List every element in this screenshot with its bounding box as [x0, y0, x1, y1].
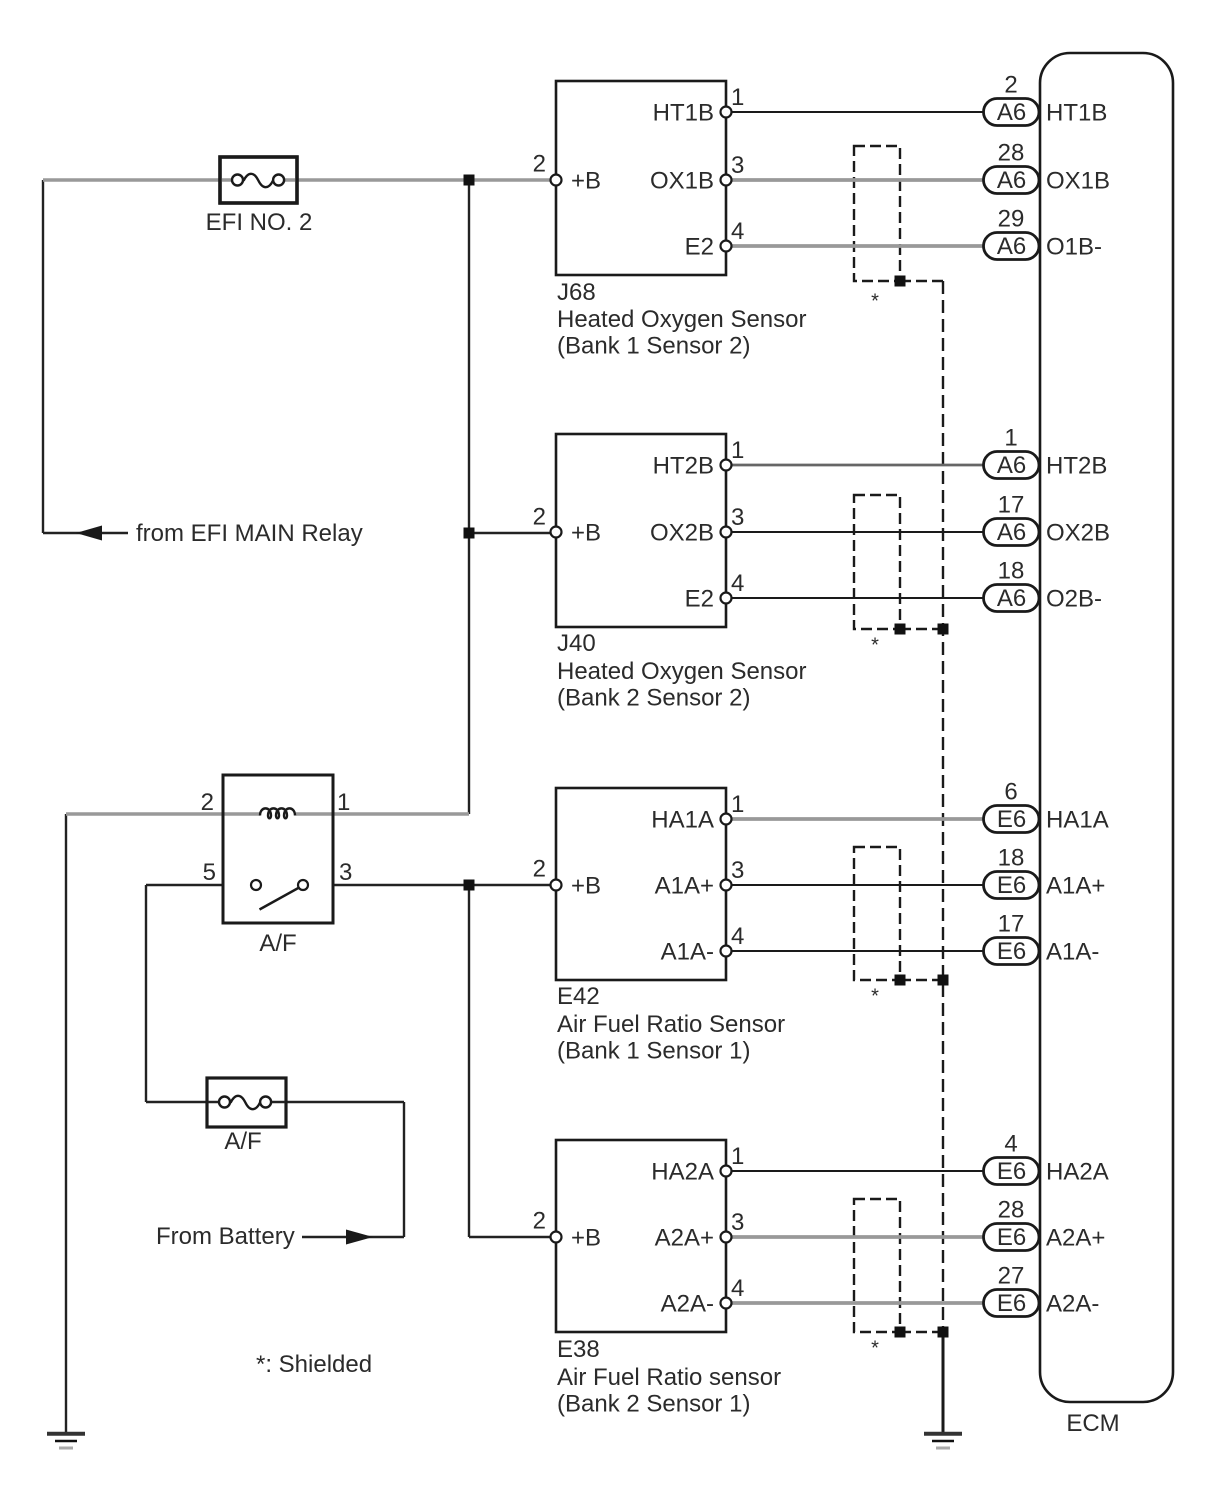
svg-text:1: 1 — [731, 791, 744, 818]
svg-text:E6: E6 — [997, 872, 1026, 899]
svg-text:2: 2 — [533, 856, 546, 883]
svg-text:HT1B: HT1B — [1046, 100, 1107, 127]
svg-text:E2: E2 — [685, 586, 714, 613]
svg-text:E6: E6 — [997, 938, 1026, 965]
svg-text:*: * — [871, 986, 879, 1008]
svg-text:(Bank 1 Sensor 1): (Bank 1 Sensor 1) — [557, 1038, 750, 1065]
svg-text:Air Fuel Ratio Sensor: Air Fuel Ratio Sensor — [557, 1011, 785, 1038]
svg-text:3: 3 — [731, 152, 744, 179]
svg-text:E6: E6 — [997, 1224, 1026, 1251]
svg-text:(Bank 2 Sensor 1): (Bank 2 Sensor 1) — [557, 1391, 750, 1418]
svg-text:E6: E6 — [997, 806, 1026, 833]
svg-text:2: 2 — [533, 1208, 546, 1235]
svg-text:A6: A6 — [997, 452, 1026, 479]
svg-text:A2A-: A2A- — [1046, 1291, 1099, 1318]
svg-text:1: 1 — [731, 1143, 744, 1170]
svg-text:HT1B: HT1B — [653, 100, 714, 127]
svg-text:O2B-: O2B- — [1046, 586, 1102, 613]
svg-text:A1A+: A1A+ — [655, 873, 714, 900]
svg-text:27: 27 — [998, 1263, 1025, 1290]
svg-text:E2: E2 — [685, 234, 714, 261]
svg-text:*: * — [871, 635, 879, 657]
svg-text:A1A-: A1A- — [661, 939, 714, 966]
svg-text:E6: E6 — [997, 1158, 1026, 1185]
svg-text:J68: J68 — [557, 279, 596, 306]
svg-text:A6: A6 — [997, 99, 1026, 126]
svg-text:4: 4 — [731, 1275, 744, 1302]
svg-text:+B: +B — [571, 1225, 601, 1252]
svg-text:A6: A6 — [997, 585, 1026, 612]
svg-text:(Bank 1 Sensor 2): (Bank 1 Sensor 2) — [557, 333, 750, 360]
svg-text:A6: A6 — [997, 233, 1026, 260]
svg-text:*: Shielded: *: Shielded — [256, 1351, 372, 1378]
svg-text:ECM: ECM — [1066, 1410, 1119, 1437]
svg-text:1: 1 — [1004, 425, 1017, 452]
svg-text:*: * — [871, 1338, 879, 1360]
svg-text:3: 3 — [731, 1209, 744, 1236]
svg-text:*: * — [871, 291, 879, 313]
svg-text:A/F: A/F — [259, 930, 296, 957]
svg-text:A6: A6 — [997, 519, 1026, 546]
svg-text:OX1B: OX1B — [1046, 168, 1110, 195]
svg-text:1: 1 — [731, 437, 744, 464]
svg-text:1: 1 — [731, 84, 744, 111]
svg-text:HA1A: HA1A — [651, 807, 714, 834]
svg-text:A1A+: A1A+ — [1046, 873, 1105, 900]
svg-text:O1B-: O1B- — [1046, 234, 1102, 261]
svg-text:3: 3 — [731, 504, 744, 531]
svg-text:4: 4 — [1004, 1131, 1017, 1158]
svg-text:28: 28 — [998, 1197, 1025, 1224]
svg-text:2: 2 — [533, 504, 546, 531]
svg-text:17: 17 — [998, 492, 1025, 519]
svg-text:17: 17 — [998, 911, 1025, 938]
svg-text:3: 3 — [731, 857, 744, 884]
svg-text:4: 4 — [731, 923, 744, 950]
svg-text:+B: +B — [571, 873, 601, 900]
svg-text:+B: +B — [571, 168, 601, 195]
svg-text:HT2B: HT2B — [1046, 453, 1107, 480]
svg-text:2: 2 — [1004, 72, 1017, 99]
svg-text:(Bank 2 Sensor 2): (Bank 2 Sensor 2) — [557, 685, 750, 712]
svg-text:E42: E42 — [557, 983, 600, 1010]
svg-text:OX1B: OX1B — [650, 168, 714, 195]
svg-text:A6: A6 — [997, 167, 1026, 194]
svg-text:Air Fuel Ratio sensor: Air Fuel Ratio sensor — [557, 1364, 781, 1391]
svg-text:+B: +B — [571, 520, 601, 547]
svg-text:OX2B: OX2B — [1046, 520, 1110, 547]
svg-text:HT2B: HT2B — [653, 453, 714, 480]
svg-text:29: 29 — [998, 206, 1025, 233]
svg-text:HA1A: HA1A — [1046, 807, 1109, 834]
svg-text:HA2A: HA2A — [651, 1159, 714, 1186]
svg-text:from EFI MAIN Relay: from EFI MAIN Relay — [136, 520, 363, 547]
svg-text:EFI NO. 2: EFI NO. 2 — [206, 209, 313, 236]
svg-text:4: 4 — [731, 570, 744, 597]
svg-text:A1A-: A1A- — [1046, 939, 1099, 966]
svg-text:3: 3 — [339, 859, 352, 886]
svg-text:18: 18 — [998, 845, 1025, 872]
svg-text:18: 18 — [998, 558, 1025, 585]
svg-text:A2A-: A2A- — [661, 1291, 714, 1318]
svg-text:2: 2 — [533, 151, 546, 178]
svg-text:A/F: A/F — [224, 1128, 261, 1155]
svg-text:1: 1 — [337, 789, 350, 816]
svg-text:Heated Oxygen Sensor: Heated Oxygen Sensor — [557, 658, 806, 685]
svg-text:J40: J40 — [557, 630, 596, 657]
svg-text:From Battery: From Battery — [156, 1223, 295, 1250]
svg-text:E38: E38 — [557, 1336, 600, 1363]
svg-text:E6: E6 — [997, 1290, 1026, 1317]
svg-text:A2A+: A2A+ — [655, 1225, 714, 1252]
svg-text:Heated Oxygen Sensor: Heated Oxygen Sensor — [557, 306, 806, 333]
svg-text:2: 2 — [201, 789, 214, 816]
svg-text:4: 4 — [731, 218, 744, 245]
svg-text:5: 5 — [203, 859, 216, 886]
svg-text:OX2B: OX2B — [650, 520, 714, 547]
svg-text:A2A+: A2A+ — [1046, 1225, 1105, 1252]
svg-text:6: 6 — [1004, 779, 1017, 806]
svg-text:28: 28 — [998, 140, 1025, 167]
svg-text:HA2A: HA2A — [1046, 1159, 1109, 1186]
